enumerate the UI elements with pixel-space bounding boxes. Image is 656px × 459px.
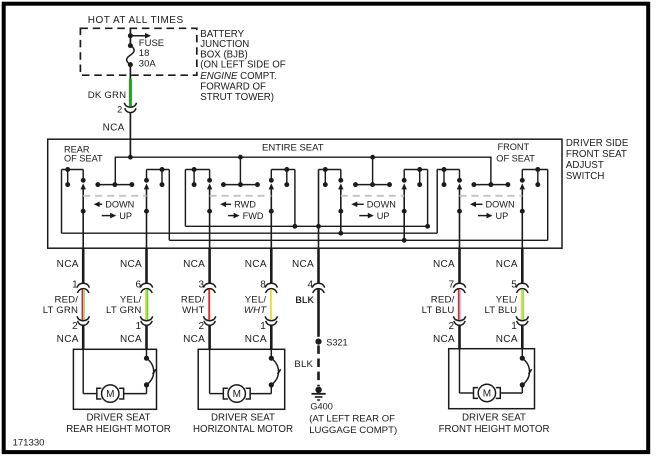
label NCA pin 3: [183, 259, 205, 270]
label ground location: [309, 413, 397, 436]
wire connector to motor pin 5: [521, 325, 524, 350]
switch SW3 (entire seat) right wiper: [402, 183, 407, 242]
svg-text:2: 2: [117, 105, 122, 115]
switch SW4 (front of seat) left contact rail: [437, 167, 462, 187]
label NCA pin 8: [245, 259, 267, 270]
wire colored segment pin 3: [208, 289, 210, 320]
wire connector to switch box: [129, 112, 131, 157]
diagram number 171330: [13, 438, 45, 449]
label DK GRN: [88, 90, 127, 101]
svg-text:1: 1: [511, 321, 517, 332]
svg-text:HOT AT ALL TIMES: HOT AT ALL TIMES: [88, 15, 184, 26]
svg-text:ENTIRE SEAT: ENTIRE SEAT: [262, 142, 324, 153]
wire colored segment pin 5: [522, 289, 524, 320]
label NCA motor pin 5: [496, 334, 518, 345]
svg-text:1: 1: [72, 279, 78, 290]
svg-text:(ON LEFT SIDE OF: (ON LEFT SIDE OF: [200, 60, 285, 71]
pin number 6: [135, 279, 141, 290]
svg-text:BLK: BLK: [295, 295, 314, 306]
svg-text:LT GRN: LT GRN: [43, 305, 79, 316]
connector C pin 8: [265, 283, 277, 293]
connector C2 pin 1: [77, 316, 89, 325]
svg-text:YEL/: YEL/: [245, 295, 267, 306]
svg-text:M: M: [483, 389, 491, 400]
svg-text:M: M: [106, 389, 114, 400]
svg-text:1: 1: [260, 321, 266, 332]
svg-text:LT GRN: LT GRN: [106, 305, 142, 316]
label NCA motor pin 3: [183, 334, 205, 345]
label NCA pin 1: [57, 259, 79, 270]
pin number 1 (motor side): [260, 321, 266, 332]
pin number 1: [72, 279, 78, 290]
pin number 8: [260, 279, 266, 290]
svg-text:1: 1: [135, 321, 141, 332]
switch SW1 (rear of seat) left wiper: [81, 183, 86, 248]
driver side front seat adjust switch box: [48, 139, 562, 248]
svg-text:3: 3: [199, 279, 205, 290]
connector C2 pin 7: [453, 316, 465, 325]
connector C2 pin 6: [140, 316, 152, 325]
pin number 1 (motor side): [135, 321, 141, 332]
motor rear height circuit breaker: [124, 349, 156, 393]
connector C pin 4: [312, 283, 324, 293]
svg-text:S321: S321: [326, 338, 347, 348]
label REAR OF SEAT: [64, 144, 103, 163]
pin number 2 (motor side): [199, 321, 205, 332]
svg-text:2: 2: [199, 321, 205, 332]
svg-text:NCA: NCA: [120, 334, 142, 345]
label driver side front seat adjust switch: [566, 138, 629, 182]
switch SW2 (horizontal) direction labels: [220, 200, 264, 221]
switch SW1 (rear of seat) left contact rail: [62, 167, 86, 187]
motor horizontal box: [198, 349, 285, 409]
svg-text:NCA: NCA: [183, 334, 205, 345]
label FRONT OF SEAT: [496, 142, 535, 164]
label NCA pin 4: [292, 259, 314, 270]
wire colored segment pin 7: [459, 289, 461, 320]
svg-text:FRONT SEAT: FRONT SEAT: [566, 149, 627, 160]
wire from battery to fuse: [129, 28, 131, 45]
svg-text:YEL/: YEL/: [496, 295, 518, 306]
label BLK upper: [295, 295, 314, 306]
svg-text:FWD: FWD: [243, 211, 264, 221]
wire pin 1 to connector: [82, 248, 85, 283]
switch SW1 (rear of seat) direction labels: [94, 200, 135, 221]
motor horizontal label: [193, 413, 293, 436]
wire pin 5 to connector: [521, 248, 524, 283]
pin number 7: [448, 279, 454, 290]
wire pin4 drop inside box: [318, 170, 320, 249]
pin number 4: [307, 279, 313, 290]
label NCA motor pin 6: [120, 334, 142, 345]
svg-text:ENGINE COMPT.: ENGINE COMPT.: [200, 71, 276, 82]
svg-text:BLK: BLK: [294, 359, 313, 370]
switch SW2 (horizontal) mechanical link (dashed): [210, 195, 272, 197]
switch SW2 (horizontal) left wiper: [207, 183, 212, 248]
connector C pin 1: [77, 283, 89, 293]
svg-text:NCA: NCA: [433, 334, 455, 345]
svg-text:NCA: NCA: [496, 259, 518, 270]
ground bus B: [62, 170, 438, 234]
svg-text:RED/: RED/: [181, 295, 205, 306]
svg-text:LUGGAGE COMPT): LUGGAGE COMPT): [309, 425, 397, 436]
switch SW3 (entire seat) mechanical link (dashed): [341, 195, 404, 197]
svg-text:2: 2: [72, 321, 78, 332]
label G400: [310, 401, 332, 411]
wire pin 3 to connector: [208, 248, 211, 283]
B+ supply bus: [115, 157, 491, 184]
svg-text:OF SEAT: OF SEAT: [64, 153, 103, 163]
svg-text:FUSE: FUSE: [139, 38, 164, 49]
wire pin 8 to connector: [270, 248, 273, 283]
svg-text:WHT: WHT: [182, 305, 204, 316]
pin number 2 (motor side): [72, 321, 78, 332]
label BLK lower: [294, 359, 313, 370]
switch SW4 (front of seat) right contact rail: [520, 167, 548, 187]
svg-text:OF SEAT: OF SEAT: [496, 153, 535, 163]
svg-text:4: 4: [307, 279, 313, 290]
switch SW4 (front of seat) left wiper: [457, 183, 462, 248]
splice S321: [315, 339, 321, 345]
label NCA motor pin 8: [245, 334, 267, 345]
svg-text:30A: 30A: [139, 58, 157, 69]
switch SW2 (horizontal) right contact rail: [269, 167, 295, 187]
switch SW1 (rear of seat) right contact rail: [144, 167, 169, 187]
connector C2 pin 5: [516, 316, 528, 325]
ground bus C: [169, 170, 547, 241]
svg-text:DRIVER SIDE: DRIVER SIDE: [566, 138, 629, 149]
svg-text:UP: UP: [119, 211, 132, 221]
bus tap to switch 2: [239, 157, 241, 184]
svg-text:NCA: NCA: [245, 334, 267, 345]
pin number 2 (motor side): [448, 321, 454, 332]
motor horizontal M1: [223, 385, 250, 402]
svg-text:5: 5: [511, 279, 517, 290]
svg-text:WHT: WHT: [244, 305, 267, 316]
label NCA motor pin 7: [433, 334, 455, 345]
ground bus A: [185, 170, 430, 229]
wire colored segment pin 6: [146, 289, 148, 320]
wire connector to motor pin 3: [208, 325, 211, 350]
wire colored segment pin 1: [82, 289, 84, 320]
connector pin 2: [124, 103, 136, 113]
switch SW4 (front of seat) right wiper: [520, 183, 525, 248]
svg-text:ADJUST: ADJUST: [566, 160, 604, 171]
wire color label pin 3: [181, 295, 205, 317]
svg-text:DOWN: DOWN: [367, 200, 396, 210]
wire BLK segment pin 4: [317, 289, 320, 337]
switch SW3 (entire seat) left contact rail: [319, 167, 344, 187]
battery junction box note: [200, 29, 285, 103]
svg-text:NCA: NCA: [245, 259, 267, 270]
svg-text:LT BLU: LT BLU: [484, 305, 517, 316]
motor front height M1: [474, 384, 501, 401]
ground G400: [312, 387, 326, 400]
connector C pin 3: [203, 283, 215, 293]
motor front height circuit breaker: [500, 349, 531, 393]
pin number 1 (motor side): [511, 321, 517, 332]
svg-text:STRUT TOWER): STRUT TOWER): [200, 92, 274, 103]
svg-text:FRONT: FRONT: [498, 142, 530, 152]
svg-text:M: M: [233, 389, 241, 400]
svg-text:NCA: NCA: [183, 259, 205, 270]
connector C pin 6: [140, 283, 152, 293]
svg-text:DRIVER SEAT: DRIVER SEAT: [211, 413, 275, 424]
wire fuse to DK GRN segment: [129, 65, 131, 79]
wire DK GRN (green): [129, 79, 132, 107]
svg-text:SWITCH: SWITCH: [566, 171, 605, 182]
wire color label pin 1: [43, 295, 79, 317]
connector C2 pin 3: [203, 316, 215, 325]
svg-text:NCA: NCA: [120, 259, 142, 270]
label NCA pin 7: [433, 259, 455, 270]
motor front height label: [439, 413, 550, 436]
label NCA (feed): [103, 123, 125, 134]
wire connector to motor pin 1: [82, 325, 85, 350]
svg-text:G400: G400: [310, 401, 332, 411]
wire color label pin 5: [484, 295, 517, 317]
svg-text:DRIVER SEAT: DRIVER SEAT: [87, 413, 151, 424]
connector C pin 7: [453, 283, 465, 293]
label NCA pin 6: [120, 259, 142, 270]
motor rear height box: [73, 349, 156, 409]
battery junction box (dashed): [80, 28, 196, 75]
svg-text:HORIZONTAL MOTOR: HORIZONTAL MOTOR: [193, 424, 293, 435]
switch SW3 (entire seat) center feed contact: [353, 182, 392, 187]
svg-text:UP: UP: [377, 211, 390, 221]
svg-text:NCA: NCA: [433, 259, 455, 270]
node feed on bus: [128, 155, 133, 160]
switch SW3 (entire seat) direction labels: [351, 200, 396, 221]
svg-text:UP: UP: [496, 211, 509, 221]
svg-text:RWD: RWD: [234, 200, 256, 210]
svg-text:FORWARD OF: FORWARD OF: [200, 82, 266, 93]
pin number 3: [199, 279, 205, 290]
wire BLK dashed to ground: [317, 345, 320, 386]
wire connector to motor pin 7: [458, 325, 461, 350]
motor rear height feed wire left: [83, 349, 97, 393]
switch SW2 (horizontal) right wiper: [269, 183, 274, 248]
wire color label pin 8: [244, 295, 267, 317]
switch SW1 (rear of seat) mechanical link (dashed): [83, 195, 146, 197]
svg-text:DOWN: DOWN: [486, 200, 515, 210]
svg-text:NCA: NCA: [496, 334, 518, 345]
connector C pin 5: [516, 283, 528, 293]
switch SW2 (horizontal) center feed contact: [221, 182, 260, 187]
motor rear height label: [66, 413, 171, 436]
svg-text:8: 8: [260, 279, 266, 290]
node pin4 on bus A: [316, 224, 321, 229]
node battery feed junction: [128, 33, 133, 38]
pin 2 label: [117, 105, 122, 115]
svg-text:NCA: NCA: [57, 334, 79, 345]
motor front height box: [449, 349, 535, 409]
svg-text:2: 2: [448, 321, 454, 332]
switch SW3 (entire seat) left wiper: [338, 183, 343, 235]
label HOT AT ALL TIMES: [88, 15, 184, 26]
label S321: [326, 338, 347, 348]
node bus tap 2: [238, 155, 243, 160]
motor horizontal circuit breaker: [250, 349, 281, 393]
wire color label pin 4: [295, 295, 314, 306]
label NCA motor pin 1: [57, 334, 79, 345]
switch SW4 (front of seat) center feed contact: [471, 182, 510, 187]
wire connector to motor pin 8: [270, 325, 273, 350]
svg-text:DK GRN: DK GRN: [88, 90, 127, 101]
node bus tap 3: [370, 155, 375, 160]
switch SW2 (horizontal) left contact rail: [185, 167, 212, 187]
pin number 5: [511, 279, 517, 290]
motor horizontal feed wire left: [210, 349, 224, 393]
switch SW1 (rear of seat) right wiper: [144, 183, 149, 248]
wire pin 6 to connector: [145, 248, 148, 283]
switch SW1 (rear of seat) center feed contact: [95, 182, 134, 187]
wire colored segment pin 8: [270, 289, 272, 320]
svg-text:7: 7: [448, 279, 454, 290]
svg-text:NCA: NCA: [103, 123, 125, 134]
wire color label pin 7: [422, 295, 455, 317]
motor front height feed wire left: [460, 349, 474, 393]
connector C2 pin 8: [265, 316, 277, 325]
svg-text:NCA: NCA: [57, 259, 79, 270]
label ENTIRE SEAT: [262, 142, 324, 153]
bus tap to switch 3: [372, 157, 374, 184]
switch SW4 (front of seat) direction labels: [470, 200, 515, 221]
switch SW4 (front of seat) mechanical link (dashed): [460, 195, 523, 197]
motor rear height M1: [97, 385, 124, 402]
svg-text:6: 6: [135, 279, 141, 290]
svg-text:YEL/: YEL/: [120, 295, 142, 306]
wire pin 4 to connector: [317, 248, 320, 283]
label NCA pin 5: [496, 259, 518, 270]
svg-text:REAR HEIGHT MOTOR: REAR HEIGHT MOTOR: [66, 424, 171, 435]
svg-text:RED/: RED/: [54, 295, 78, 306]
wire connector to motor pin 6: [145, 325, 148, 350]
svg-text:DRIVER SEAT: DRIVER SEAT: [462, 413, 526, 424]
feed arrow to other circuits: [130, 33, 151, 39]
svg-text:RED/: RED/: [431, 295, 455, 306]
wire pin 7 to connector: [458, 248, 461, 283]
fuse F18 30A: [127, 43, 135, 67]
svg-text:(AT LEFT REAR OF: (AT LEFT REAR OF: [309, 413, 395, 424]
fuse label: [139, 38, 164, 70]
switch SW3 (entire seat) right contact rail: [402, 167, 428, 187]
svg-text:DOWN: DOWN: [105, 200, 134, 210]
wire color label pin 6: [106, 295, 142, 317]
svg-text:FRONT HEIGHT MOTOR: FRONT HEIGHT MOTOR: [439, 424, 550, 435]
svg-text:NCA: NCA: [292, 259, 314, 270]
svg-text:171330: 171330: [13, 438, 45, 449]
svg-text:LT BLU: LT BLU: [422, 305, 455, 316]
